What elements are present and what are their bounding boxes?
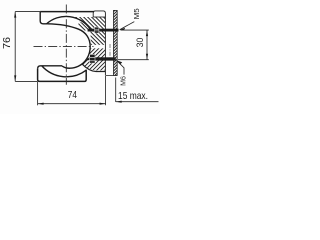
- dimension 74 extension left: [37, 82, 39, 105]
- svg-text:15 max.: 15 max.: [118, 90, 148, 102]
- screw M6 shaft: [95, 57, 116, 60]
- dimension 76 line: [14, 12, 16, 82]
- dimension 76 extension top: [15, 11, 40, 13]
- svg-text:M5: M5: [132, 8, 141, 19]
- screw M5 nut: [95, 27, 99, 33]
- screw M6 tip: [87, 58, 90, 60]
- arrow right 74: [100, 103, 106, 105]
- arrow down 30: [146, 54, 148, 60]
- svg-text:M6: M6: [118, 76, 127, 86]
- curve: upper jaw sweep + bore circle right + bore bottom: [47, 24, 90, 68]
- hatch region: upper jaw neck crescent: [78, 21, 90, 30]
- svg-text:30: 30: [135, 38, 145, 48]
- arrow left 74: [38, 103, 44, 105]
- outline: top slot end curl: [40, 12, 47, 24]
- outline: bottom slot end curl: [38, 66, 62, 69]
- dimension 76 extension bottom: [15, 80, 37, 82]
- dimension 15max line: [116, 101, 159, 103]
- svg-text:76: 76: [1, 37, 13, 49]
- outline: sheet top edge: [40, 11, 94, 13]
- dimension 30 extension bottom: [118, 59, 149, 61]
- leader M6 arrowhead: [117, 60, 123, 64]
- arrow left 15max: [116, 101, 122, 103]
- centerline horizontal: [34, 46, 94, 48]
- screw M5 shaft: [88, 29, 119, 32]
- arrow up 30: [146, 30, 148, 36]
- leader M6: [117, 60, 124, 74]
- hatch region: clamp block lower jaw section: [82, 48, 105, 70]
- white slit between upper and lower jaws: [90, 45, 106, 48]
- leader M5 arrowhead: [120, 28, 126, 31]
- outline: block left face, rounded top corners, right face: [93, 11, 105, 76]
- curve: lower jaw underside sweep: [82, 64, 105, 72]
- line: bottom edge under gap and panel: [105, 74, 117, 76]
- line: block slot bottom edge: [93, 16, 105, 18]
- leader M5: [120, 22, 135, 30]
- centerline vertical: [65, 5, 67, 85]
- arrow down 76: [14, 75, 16, 81]
- dash line in jaw gap: [109, 44, 111, 57]
- dimension 30 extension top: [121, 29, 149, 31]
- dimension 74 extension right: [105, 76, 107, 105]
- mounting panel bar (hatched section): [114, 10, 118, 75]
- hatch region: clamp block upper jaw section: [73, 17, 105, 45]
- svg-text:74: 74: [68, 89, 77, 101]
- arrow up 76: [14, 12, 16, 18]
- outline: sheet left edge + bottom edge + right bend: [38, 69, 87, 82]
- dimension 30 line: [146, 30, 148, 60]
- arc: ring outer boundary bottom: [42, 66, 86, 77]
- dimension 74 line: [38, 103, 106, 105]
- screw M6 head: [90, 54, 95, 63]
- dimension 15max extension: [115, 78, 117, 103]
- arc: ring outer boundary top: [47, 16, 91, 29]
- white strap slot band at block top: [91, 12, 105, 17]
